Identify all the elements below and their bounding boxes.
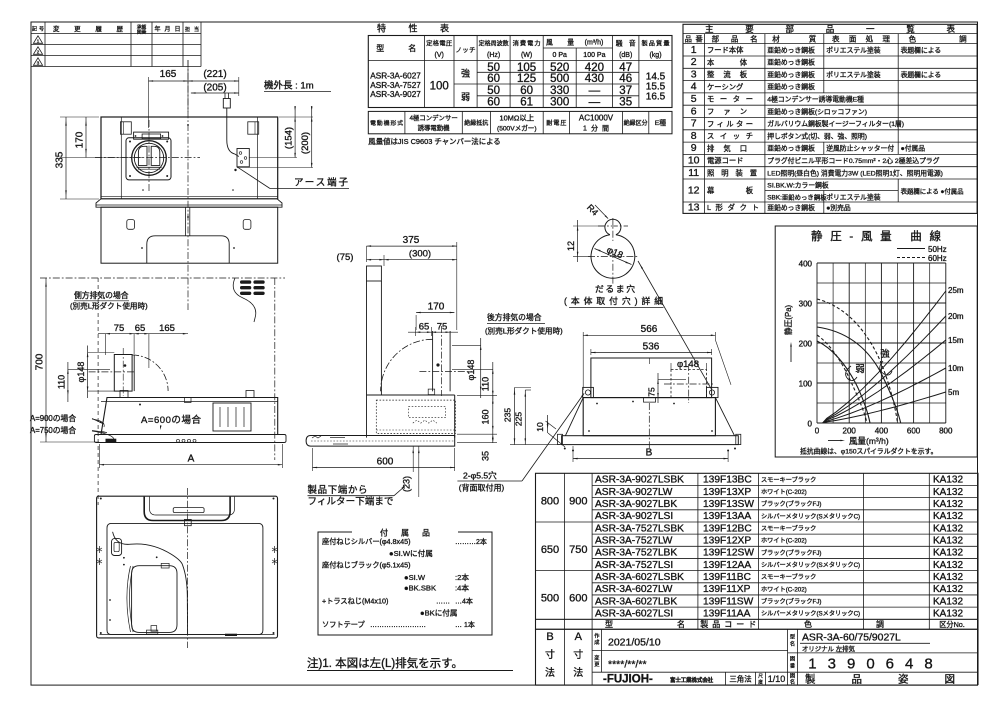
svg-text:絶縁区分: 絶縁区分 — [624, 119, 648, 127]
svg-text:KA132: KA132 — [933, 511, 963, 522]
plan view body outline — [101, 117, 278, 199]
plan view mounting brackets — [120, 122, 258, 191]
svg-text:1 分 間: 1 分 間 — [583, 124, 609, 133]
svg-text:亜鉛めっき鋼板: 亜鉛めっき鋼板 — [767, 203, 815, 212]
characteristics table header text — [376, 39, 669, 60]
svg-text:年 月 日: 年 月 日 — [155, 25, 181, 33]
accessories text — [322, 537, 487, 629]
svg-text:●BKに付属: ●BKに付属 — [420, 608, 458, 618]
svg-text:700: 700 — [35, 353, 46, 370]
svg-text:亜鉛めっき鋼板: 亜鉛めっき鋼板 — [767, 45, 815, 54]
svg-text:500: 500 — [550, 73, 569, 85]
projection method cell — [729, 674, 785, 686]
parts table header — [685, 34, 967, 44]
svg-text:105: 105 — [517, 62, 536, 74]
svg-text:ASR-3A-6027LW: ASR-3A-6027LW — [595, 584, 673, 595]
svg-text:4極コンデンサー: 4極コンデンサー — [409, 113, 457, 122]
svg-text:160: 160 — [481, 409, 491, 424]
svg-text:表題欄による: 表題欄による — [901, 70, 942, 79]
svg-text:……: …… — [436, 599, 450, 606]
side view dim φ148 110 160 35 — [452, 338, 497, 461]
earth terminal leader — [237, 167, 349, 189]
svg-text:139F12AA: 139F12AA — [703, 560, 751, 571]
svg-text:静圧(Pa): 静圧(Pa) — [783, 304, 793, 335]
svg-text:(m³/h): (m³/h) — [585, 40, 604, 47]
main parts list table — [683, 24, 977, 213]
svg-text:139F13XP: 139F13XP — [703, 487, 751, 498]
exhaust flange and duct circle — [126, 132, 171, 180]
svg-text:押しボタン式(切、弱、強、照明): 押しボタン式(切、弱、強、照明) — [767, 131, 867, 140]
svg-text:5m: 5m — [948, 388, 959, 397]
svg-text:L 形 ダ ク ト: L 形 ダ ク ト — [707, 203, 759, 212]
rear view dim 75 — [647, 373, 687, 403]
svg-text:125: 125 — [517, 73, 536, 85]
model table header row — [605, 619, 965, 629]
svg-text:(200): (200) — [300, 132, 311, 154]
svg-text:235: 235 — [503, 408, 513, 422]
svg-text:ASR-3A-6027LBK: ASR-3A-6027LBK — [595, 596, 677, 607]
FUJIOH logo — [603, 674, 714, 686]
svg-text:AC1000V: AC1000V — [579, 114, 614, 123]
duct resistance curve 20m — [823, 312, 964, 423]
revision history table — [31, 22, 201, 67]
svg-text:0: 0 — [815, 427, 820, 436]
svg-text:170: 170 — [428, 302, 445, 313]
svg-text:LED照明(昼白色) 消費電力3W (LED照明1灯、照明用: LED照明(昼白色) 消費電力3W (LED照明1灯、照明用電源) — [767, 168, 943, 177]
svg-text:●SI.W: ●SI.W — [404, 573, 426, 582]
plan dim 170 and 335 — [55, 117, 144, 199]
svg-text:(154): (154) — [284, 127, 295, 149]
svg-text:スモーキーブラック: スモーキーブラック — [761, 573, 816, 581]
svg-text:600: 600 — [907, 427, 921, 436]
svg-text:φ148: φ148 — [466, 360, 476, 381]
svg-text:電動機形式: 電動機形式 — [370, 119, 403, 127]
svg-text:300: 300 — [799, 300, 813, 309]
svg-text:(205): (205) — [203, 83, 226, 94]
svg-text:ケーシング: ケーシング — [707, 82, 743, 91]
bottom view center line — [187, 488, 189, 648]
svg-text:本 体: 本 体 — [707, 58, 748, 67]
accessories box — [318, 528, 492, 636]
svg-text:名: 名 — [790, 677, 795, 685]
svg-text:風 量: 風 量 — [546, 39, 574, 47]
svg-text:更: 更 — [594, 661, 600, 668]
svg-text:50: 50 — [487, 62, 500, 74]
parts row 12 幕板 — [688, 181, 964, 202]
svg-text:亜鉛めっき鋼板: 亜鉛めっき鋼板 — [767, 70, 815, 79]
model row ASR-3A-7527LSBK — [595, 523, 963, 534]
svg-text:●別売品: ●別売品 — [826, 203, 851, 212]
svg-text:誘導電動機: 誘導電動機 — [418, 123, 451, 132]
svg-text:………2本: ………2本 — [455, 537, 487, 546]
svg-text:ス イ ッ チ: ス イ ッ チ — [707, 132, 753, 141]
svg-text:650: 650 — [541, 544, 559, 556]
svg-text:番: 番 — [790, 663, 796, 670]
svg-text:A=750の場合: A=750の場合 — [30, 425, 76, 435]
model table size columns — [541, 496, 588, 605]
svg-text:9: 9 — [691, 142, 697, 154]
parts row 6 ファン — [691, 105, 867, 117]
svg-text:10MΩ以上: 10MΩ以上 — [499, 114, 534, 123]
svg-text:500: 500 — [541, 593, 559, 605]
front view labels A=900 A=750 A=600 — [30, 413, 201, 439]
duct resistance curve 5m — [823, 388, 960, 423]
svg-text:100: 100 — [430, 81, 449, 93]
front view dim 700 — [35, 278, 100, 442]
svg-text:60: 60 — [520, 85, 533, 97]
drawing number cell — [790, 656, 944, 673]
side view dim (75) (300) — [337, 249, 457, 267]
svg-text:ASR-3A-6027LSI: ASR-3A-6027LSI — [595, 608, 673, 619]
svg-text:記号: 記号 — [32, 26, 44, 33]
revised date cell — [594, 654, 646, 671]
plan view lower front panel — [101, 207, 278, 263]
svg-text:(別売L形ダクト使用時): (別売L形ダクト使用時) — [70, 301, 148, 311]
svg-text:566: 566 — [641, 324, 658, 335]
svg-text:11: 11 — [688, 167, 699, 179]
svg-text:SBK:亜鉛めっき鋼板: SBK:亜鉛めっき鋼板 — [767, 193, 827, 202]
svg-text:付 属 品: 付 属 品 — [380, 528, 430, 538]
svg-text:型: 型 — [790, 633, 795, 641]
svg-text:1: 1 — [691, 44, 697, 56]
svg-text:フィルター下端まで: フィルター下端まで — [308, 496, 394, 508]
svg-text:耐電圧: 耐電圧 — [546, 119, 566, 127]
keyhole leader arrow to rear view — [638, 261, 711, 389]
fan curve weak 50Hz — [817, 341, 870, 423]
svg-text:消費電力: 消費電力 — [513, 40, 541, 48]
note text — [307, 656, 513, 671]
svg-text:風量値はJIS C9603 チャンバー法による: 風量値はJIS C9603 チャンバー法による — [368, 137, 500, 146]
svg-text:亜鉛めっき鋼板: 亜鉛めっき鋼板 — [767, 82, 815, 91]
svg-text:ポリエステル塗装: ポリエステル塗装 — [826, 45, 881, 54]
svg-text:幕 板: 幕 板 — [707, 186, 754, 195]
svg-text:KA132: KA132 — [933, 608, 963, 619]
svg-text:型 名: 型 名 — [376, 43, 416, 53]
svg-text:(Hz): (Hz) — [487, 52, 500, 59]
side view dim 65 75 — [408, 322, 458, 337]
svg-text:A=900の場合: A=900の場合 — [30, 413, 76, 423]
svg-text:6: 6 — [691, 105, 697, 117]
svg-text:モ ー タ ー: モ ー タ ー — [707, 95, 753, 104]
parts row 13 L形ダクト — [688, 202, 851, 214]
power cord and plug — [223, 93, 249, 171]
rear view corner mounting brackets — [583, 340, 731, 398]
svg-text:600: 600 — [569, 593, 587, 605]
side view label 2-φ5.5穴 — [457, 470, 522, 493]
svg-text:****/**/**: ****/**/** — [608, 659, 647, 671]
svg-text:(V): (V) — [435, 52, 444, 59]
svg-text:750: 750 — [569, 544, 587, 556]
fan curve weak 60Hz — [817, 335, 867, 423]
graph y axis title 静圧(Pa) — [783, 304, 793, 362]
svg-text:区分No.: 区分No. — [939, 620, 965, 629]
side view dim (23) — [402, 447, 420, 498]
front view hood body — [101, 391, 278, 435]
svg-text:ポリエステル塗装: ポリエステル塗装 — [826, 193, 881, 202]
svg-text:KA132: KA132 — [933, 560, 963, 571]
svg-text:110: 110 — [481, 377, 491, 391]
svg-text:ASR-3A-9027LW: ASR-3A-9027LW — [595, 487, 673, 498]
svg-text:図番: 図番 — [137, 29, 147, 36]
side view label 後方排気の場合 — [485, 312, 563, 336]
svg-text:47: 47 — [619, 62, 632, 74]
svg-text:後方排気の場合: 後方排気の場合 — [487, 312, 542, 322]
svg-text:SI.BK.W:カラー鋼板: SI.BK.W:カラー鋼板 — [767, 181, 829, 190]
svg-text:600: 600 — [377, 457, 394, 468]
weak label — [846, 364, 865, 381]
svg-text:60: 60 — [487, 73, 500, 85]
svg-text:定格電圧: 定格電圧 — [426, 40, 452, 48]
parts row 3 整流板 — [691, 68, 941, 80]
svg-text:スモーキーブラック: スモーキーブラック — [761, 525, 816, 533]
svg-text:3: 3 — [691, 68, 697, 80]
svg-text:(dB): (dB) — [619, 52, 632, 59]
svg-text:100: 100 — [799, 380, 813, 389]
svg-text:KA132: KA132 — [933, 535, 963, 546]
rear view duct hole — [664, 359, 713, 403]
svg-text:KA132: KA132 — [933, 475, 963, 486]
svg-text:(75): (75) — [337, 252, 354, 263]
front view dim A — [99, 444, 282, 468]
parts row 5 モーター — [691, 93, 864, 105]
svg-text:ブラック(ブラックFJ): ブラック(ブラックFJ) — [761, 500, 822, 508]
svg-text:抵抗曲線は、φ150スパイラルダクトを示す。: 抵抗曲線は、φ150スパイラルダクトを示す。 — [800, 447, 937, 456]
svg-text:製品下端から: 製品下端から — [308, 484, 368, 496]
svg-text:ASR-3A-7527LSBK: ASR-3A-7527LSBK — [595, 523, 684, 534]
svg-text:フード本体: フード本体 — [707, 46, 744, 55]
svg-text:420: 420 — [585, 62, 604, 74]
svg-text:度: 度 — [758, 678, 763, 685]
svg-text:アース端子: アース端子 — [294, 177, 348, 189]
svg-text:37: 37 — [619, 85, 632, 97]
front view ceiling chain line — [40, 277, 285, 279]
svg-text:強: 強 — [461, 68, 470, 79]
svg-text:●SI.Wに付属: ●SI.Wに付属 — [389, 548, 433, 558]
model row ASR-3A-7527LBK — [595, 548, 963, 559]
svg-text:騒 音: 騒 音 — [616, 39, 636, 48]
characteristics table data — [430, 62, 666, 109]
svg-text:KA132: KA132 — [933, 572, 963, 583]
svg-text:ASR-3A-7527LSI: ASR-3A-7527LSI — [595, 560, 673, 571]
svg-text:139F13SW: 139F13SW — [703, 499, 754, 510]
svg-text:536: 536 — [643, 342, 660, 353]
svg-text:900: 900 — [569, 496, 587, 508]
svg-text:シルバーメタリック(SメタリックC): シルバーメタリック(SメタリックC) — [761, 561, 860, 569]
rear view dim 536 — [591, 342, 712, 356]
svg-text:(500Vメガー): (500Vメガー) — [497, 124, 537, 133]
svg-text:-FUJIOH-: -FUJIOH- — [603, 674, 653, 686]
svg-text:部 品 名: 部 品 名 — [712, 34, 758, 44]
svg-text:絶縁抵抗: 絶縁抵抗 — [464, 119, 488, 127]
svg-text:5: 5 — [691, 93, 697, 105]
revision triangle mark 1 — [33, 36, 42, 44]
svg-text:KA132: KA132 — [933, 596, 963, 607]
duct resistance curve 25m — [823, 286, 964, 423]
graph x axis title 風量(m³/h) — [828, 436, 889, 446]
svg-text:側方排気の場合: 側方排気の場合 — [74, 290, 129, 300]
svg-text:座付ねじシルバー(φ4.8x45): 座付ねじシルバー(φ4.8x45) — [322, 537, 411, 546]
plan view center lines — [95, 60, 200, 310]
svg-text:KA132: KA132 — [933, 523, 963, 534]
svg-text:機外長 : 1m: 機外長 : 1m — [264, 80, 314, 92]
front view switch box — [213, 403, 251, 431]
svg-text:担 当: 担 当 — [185, 26, 199, 33]
svg-text:400: 400 — [875, 427, 889, 436]
svg-text:375: 375 — [403, 235, 420, 246]
svg-text:ASR-3A-7527: ASR-3A-7527 — [370, 81, 421, 90]
svg-text:110: 110 — [56, 375, 66, 389]
svg-text:三角法: 三角法 — [729, 675, 751, 684]
svg-text:表題欄による ●付属品: 表題欄による ●付属品 — [901, 187, 964, 196]
svg-text:φ148: φ148 — [76, 362, 86, 383]
title block grid — [536, 629, 979, 685]
svg-text:60Hz: 60Hz — [928, 254, 947, 263]
svg-text:330: 330 — [550, 85, 569, 97]
parts row 10 電源コード — [688, 155, 940, 167]
characteristics table model names — [370, 72, 421, 100]
model name cell — [790, 633, 930, 653]
created date cell — [594, 632, 661, 649]
svg-text:材 質: 材 質 — [772, 34, 817, 44]
front view bottom plate — [94, 435, 286, 443]
svg-text:寸: 寸 — [545, 648, 555, 661]
duct resistance curve 10m — [823, 364, 964, 423]
duct resistance curve 15m — [823, 336, 964, 423]
plan view front band — [96, 199, 282, 207]
A dimension label — [573, 631, 583, 679]
svg-text:—: — — [589, 85, 601, 97]
svg-text:ASR-3A-9027: ASR-3A-9027 — [370, 90, 421, 99]
svg-text:400: 400 — [799, 260, 813, 269]
bottom view small parts — [109, 556, 237, 636]
side view duct arc — [381, 339, 433, 391]
svg-text:20m: 20m — [948, 312, 964, 321]
svg-text:整 流 板: 整 流 板 — [707, 70, 748, 79]
svg-text:139F11AA: 139F11AA — [703, 608, 751, 619]
svg-text:法: 法 — [573, 666, 583, 679]
characteristics table title — [377, 23, 449, 34]
svg-text:ブラック(ブラックFJ): ブラック(ブラックFJ) — [761, 549, 822, 557]
svg-text:法: 法 — [545, 666, 555, 679]
svg-text:●BK.SBK: ●BK.SBK — [404, 584, 436, 593]
svg-text:170: 170 — [75, 131, 86, 148]
front view label 側方排気の場合 — [70, 290, 148, 311]
svg-text:139F13BC: 139F13BC — [703, 475, 752, 486]
svg-text:(本体取付穴)詳細: (本体取付穴)詳細 — [564, 295, 663, 306]
svg-text:139F12BC: 139F12BC — [703, 523, 752, 534]
svg-text:2-φ5.5穴: 2-φ5.5穴 — [463, 470, 497, 481]
svg-text:ソフトテープ: ソフトテープ — [322, 620, 366, 629]
graph axis labels — [799, 260, 953, 436]
svg-text:13: 13 — [688, 202, 700, 214]
svg-text:ホワイト(C-202): ホワイト(C-202) — [761, 586, 807, 593]
parts row 11 照明装置 — [688, 167, 943, 179]
svg-text:46: 46 — [619, 73, 632, 85]
svg-text:A=600の場合: A=600の場合 — [141, 414, 201, 426]
side view exhaust pipe — [419, 326, 472, 396]
parts row 7 フィルター — [691, 118, 904, 130]
front view duct arc — [132, 355, 168, 391]
bottom view filter panel — [127, 566, 177, 633]
bottom view duct cover slot — [144, 497, 234, 526]
svg-text:65: 65 — [135, 323, 146, 334]
graph legend — [897, 245, 947, 263]
svg-text:ホワイト(C-202): ホワイト(C-202) — [761, 538, 807, 545]
keyhole daruma hole detail — [588, 218, 638, 284]
model row ASR-3A-6027LW — [595, 584, 963, 595]
svg-text:…4本: …4本 — [455, 597, 473, 606]
model row ASR-3A-9027LSBK — [595, 475, 963, 486]
svg-text:寸: 寸 — [573, 648, 583, 661]
graph note — [800, 447, 937, 456]
parts table title — [705, 24, 955, 34]
rear view bottom plate — [558, 434, 741, 449]
svg-text:7: 7 — [691, 118, 697, 130]
svg-text:ASR-3A-7527LW: ASR-3A-7527LW — [595, 535, 673, 546]
parts row 2 本体 — [691, 56, 815, 68]
plan dim 165 / (221) / (205) — [149, 60, 239, 128]
svg-text:4極コンデンサー誘導電動機E種: 4極コンデンサー誘導電動機E種 — [767, 95, 864, 104]
svg-text:430: 430 — [585, 73, 604, 85]
rear view dim 566 — [583, 324, 715, 390]
svg-text:65: 65 — [419, 322, 430, 333]
svg-text:1390648: 1390648 — [808, 656, 943, 673]
svg-text:+トラスねじ(M4x10): +トラスねじ(M4x10) — [322, 597, 388, 606]
svg-text:ブラック(ブラックFJ): ブラック(ブラックFJ) — [761, 598, 822, 606]
svg-text:シルバーメタリック(SメタリックC): シルバーメタリック(SメタリックC) — [761, 610, 860, 618]
B dimension label — [545, 631, 555, 679]
fan curve strong 60Hz — [817, 299, 898, 423]
svg-text:……………………: …………………… — [370, 622, 426, 629]
model row ASR-3A-6027LSBK — [595, 572, 963, 583]
svg-text:電源コード: 電源コード — [707, 156, 743, 165]
svg-text:12: 12 — [688, 185, 700, 197]
model row ASR-3A-9027LBK — [595, 499, 963, 510]
svg-text:強: 強 — [880, 348, 890, 360]
svg-text:シルバーメタリック(SメタリックC): シルバーメタリック(SメタリックC) — [761, 512, 860, 520]
svg-text:0 Pa: 0 Pa — [552, 52, 567, 59]
svg-text:ポリエステル塗装: ポリエステル塗装 — [826, 70, 881, 79]
drawing title cell — [790, 673, 955, 686]
svg-text:●付属品: ●付属品 — [901, 144, 926, 153]
graph grid — [817, 263, 946, 423]
svg-text:(kg): (kg) — [649, 52, 661, 59]
svg-text:図: 図 — [790, 656, 795, 663]
front view dim φ148 and 110 — [56, 346, 114, 403]
keyhole dim R4 — [585, 202, 609, 219]
svg-text:(221): (221) — [203, 69, 226, 80]
svg-text:139F12XP: 139F12XP — [703, 535, 751, 546]
svg-text:520: 520 — [550, 62, 569, 74]
svg-text:139F12SW: 139F12SW — [703, 548, 754, 559]
svg-text:逆風防止シャッター付: 逆風防止シャッター付 — [826, 144, 894, 153]
bottom view lamp — [112, 539, 122, 556]
svg-text:座付ねじブラック(φ5.1x45): 座付ねじブラック(φ5.1x45) — [322, 561, 411, 570]
model row ASR-3A-9027LW — [595, 487, 963, 498]
svg-text:(別売L形ダクト使用時): (別売L形ダクト使用時) — [485, 326, 563, 336]
bottom view outer outline — [97, 496, 278, 638]
keyhole labels — [564, 283, 664, 308]
svg-text:定格周波数: 定格周波数 — [479, 40, 509, 48]
svg-text:4: 4 — [691, 81, 697, 93]
front view wall chain lines — [98, 278, 275, 505]
revision triangle mark 2 — [33, 47, 42, 55]
svg-text:1/10: 1/10 — [768, 674, 786, 684]
svg-text:(背面取付用): (背面取付用) — [459, 483, 505, 493]
svg-text:亜鉛めっき鋼板(シロッコファン): 亜鉛めっき鋼板(シロッコファン) — [767, 107, 867, 116]
svg-text:製品質量: 製品質量 — [642, 40, 670, 48]
svg-text:165: 165 — [160, 69, 177, 80]
